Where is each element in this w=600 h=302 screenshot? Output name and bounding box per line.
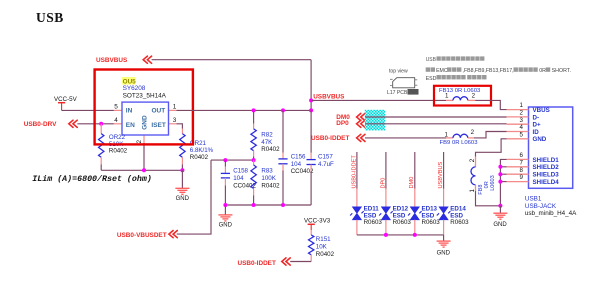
- wire mid rail divider: [211, 159, 254, 161]
- wire USBVBUS top horizontal: [152, 59, 312, 61]
- node rail-R83: [252, 203, 256, 207]
- wire shield bus vertical: [500, 159, 506, 205]
- svg-text:,FB8,FB9,FB13,FB17,: ,FB8,FB9,FB13,FB17,: [463, 68, 514, 74]
- svg-text:ISET: ISET: [151, 122, 165, 129]
- chevron USB0-IDDET mid: [357, 134, 365, 141]
- chevron USB0-DRV: [69, 120, 77, 127]
- connector pin 6 SHIELD1: [507, 158, 529, 160]
- node C157 top: [309, 108, 313, 112]
- svg-text:ID: ID: [533, 129, 540, 136]
- resistor R151: [310, 230, 312, 235]
- svg-text:L0603: L0603: [490, 175, 496, 191]
- resistor R83: [253, 160, 255, 165]
- svg-text:DM0: DM0: [409, 177, 415, 189]
- capacitor C158: [224, 160, 226, 166]
- node C156 top: [281, 108, 285, 112]
- svg-text:R0603: R0603: [364, 219, 383, 226]
- svg-text:1: 1: [173, 104, 177, 111]
- wire shield stub: [500, 166, 506, 168]
- svg-text:SHIELD2: SHIELD2: [533, 164, 560, 171]
- svg-text:D-: D-: [533, 114, 540, 121]
- wire shield stub: [500, 173, 506, 175]
- highlight box around FB13: [434, 86, 491, 106]
- svg-text:SHIELD1: SHIELD1: [533, 157, 560, 164]
- ground GND under shield bus: [499, 206, 501, 213]
- svg-text:USB0-IDDET: USB0-IDDET: [238, 260, 276, 267]
- IC U5 pin 3 stub: [169, 123, 177, 125]
- svg-text:GND: GND: [437, 251, 451, 257]
- svg-text:FB13 0R L0603: FB13 0R L0603: [439, 88, 481, 94]
- svg-text:R0603: R0603: [393, 219, 412, 226]
- ESD diode ED14: [439, 207, 448, 220]
- wire USBVBUS to FB13: [311, 99, 446, 101]
- wire GND pin2 vertical: [143, 143, 145, 170]
- svg-text:USB: USB: [426, 57, 437, 63]
- svg-text:2: 2: [471, 129, 475, 136]
- node R82 top: [252, 108, 256, 112]
- capacitor C156: [282, 110, 284, 152]
- resistor OR21: [181, 129, 183, 134]
- ground GND under ESD rail: [443, 235, 445, 241]
- connector pin 1 VBUS: [507, 109, 529, 111]
- node shield-FB8 junction: [498, 204, 502, 208]
- wire DM0 to D-: [365, 116, 507, 118]
- chevron DM0: [357, 113, 365, 120]
- wire USB0-IDDET stub to ED11: [356, 152, 358, 189]
- svg-text:USB0-VBUSDET: USB0-VBUSDET: [117, 232, 167, 239]
- svg-text:0R: 0R: [539, 68, 546, 74]
- svg-text:IN: IN: [126, 108, 133, 115]
- IC U5 pin 5 stub: [114, 109, 122, 111]
- svg-text:4: 4: [519, 124, 523, 131]
- node ESD rail 1: [384, 233, 388, 237]
- node rail-C158: [223, 203, 227, 207]
- svg-text:C156: C156: [291, 154, 306, 161]
- svg-text:5: 5: [519, 131, 523, 138]
- svg-text:SHIELD3: SHIELD3: [533, 172, 560, 179]
- svg-text:EN: EN: [126, 122, 135, 129]
- IC OU5 reference label: [122, 77, 136, 85]
- svg-text:GND: GND: [219, 223, 233, 229]
- svg-text:2: 2: [469, 158, 476, 162]
- connector USB1 body: [529, 107, 573, 188]
- svg-text:R0402: R0402: [316, 251, 335, 258]
- ESD diode ED13: [410, 207, 419, 220]
- wire FB8 to shield net: [476, 191, 501, 206]
- wire USB0-DRV to EN pin: [77, 123, 114, 125]
- node shield junction: [498, 165, 502, 169]
- annotation note line2: [426, 67, 430, 71]
- svg-text:100K: 100K: [261, 175, 276, 182]
- svg-text:OUT: OUT: [151, 108, 165, 115]
- node C158 top: [223, 158, 227, 162]
- svg-text:USB0-IDDET: USB0-IDDET: [351, 155, 357, 189]
- svg-text:8: 8: [519, 167, 523, 174]
- svg-text:DP0: DP0: [380, 178, 386, 189]
- svg-text:R0402: R0402: [261, 146, 280, 153]
- node rail-C156: [281, 203, 285, 207]
- ferrite bead FB13: [446, 99, 453, 101]
- chevron USB0-IDDET bottom: [282, 258, 290, 265]
- wire OUT net horizontal: [177, 109, 312, 111]
- svg-text:9: 9: [519, 174, 523, 181]
- wire caps bottom rail: [225, 204, 311, 206]
- svg-text:USB: USB: [36, 10, 64, 25]
- capacitor C157: [310, 110, 312, 152]
- svg-text:6: 6: [519, 152, 523, 159]
- wire FB9 to ID pin: [474, 132, 507, 138]
- power symbol VCC-5V: [58, 102, 65, 104]
- svg-text:47K: 47K: [261, 139, 273, 146]
- svg-text:104: 104: [233, 175, 244, 182]
- svg-text:ILim (A)=6800/Rset (ohm): ILim (A)=6800/Rset (ohm): [32, 174, 152, 184]
- svg-text:5: 5: [114, 104, 118, 111]
- IC U5 pin 4 stub: [114, 123, 122, 125]
- svg-text:L17 PCB: L17 PCB: [387, 90, 408, 96]
- chevron DP0: [357, 120, 365, 127]
- svg-text:D+: D+: [533, 122, 541, 129]
- svg-text:usb_minib_H4_4A: usb_minib_H4_4A: [525, 210, 577, 217]
- svg-text:top view: top view: [389, 68, 408, 74]
- wire ISET to OR21: [177, 124, 183, 129]
- svg-text:R82: R82: [261, 132, 273, 139]
- chevron USB0-VBUSDET: [169, 231, 177, 238]
- IC U5 pin 1 stub: [169, 109, 177, 111]
- svg-text:R83: R83: [261, 168, 273, 175]
- svg-text:3: 3: [173, 117, 177, 124]
- node OR21 junction: [180, 168, 184, 172]
- power symbol VCC-3V3: [308, 223, 315, 225]
- svg-text:C158: C158: [233, 168, 248, 175]
- resistor R82: [253, 110, 255, 123]
- wire bottom rail OR22-OR21: [101, 169, 182, 171]
- wire FB13 to VBUS pin: [475, 100, 506, 109]
- ground GND under C158 rail: [224, 205, 226, 215]
- highlight box around OU5: [95, 70, 193, 145]
- svg-text:DP0: DP0: [336, 120, 349, 127]
- connector pin 7 SHIELD2: [507, 166, 529, 168]
- svg-text:GND: GND: [493, 222, 507, 228]
- svg-text:10K: 10K: [316, 243, 328, 250]
- wire DP0 stub to ED12: [385, 152, 387, 189]
- wire VCC-5V to IN pin: [62, 109, 114, 111]
- IC U5 pin 2 stub: [143, 135, 145, 143]
- wire ESD bottom rail: [357, 234, 444, 236]
- wire USB0-IDDET bottom: [290, 261, 311, 263]
- ESD diode ED11: [352, 207, 361, 220]
- svg-text:USBVBUS: USBVBUS: [96, 57, 128, 64]
- svg-text:R0603: R0603: [422, 219, 441, 226]
- svg-text:1: 1: [445, 131, 449, 138]
- ferrite bead FB9: [446, 137, 453, 139]
- connector pin 3 D+: [507, 123, 529, 125]
- node R82-R83 junction: [252, 158, 256, 162]
- node shield junction: [498, 172, 502, 176]
- svg-text:GND: GND: [533, 136, 547, 143]
- svg-text:FB9 0R L0603: FB9 0R L0603: [440, 140, 479, 146]
- connector pin 8 SHIELD3: [507, 173, 529, 175]
- ground GND under OR21: [181, 170, 183, 188]
- svg-text:3: 3: [519, 117, 523, 124]
- connector pin 9 SHIELD4: [507, 181, 529, 183]
- svg-text:EMC: EMC: [436, 68, 448, 74]
- svg-text:CC0402: CC0402: [291, 168, 314, 175]
- wire DM0 stub to ED13: [414, 152, 416, 189]
- node shield junction: [498, 180, 502, 184]
- svg-text:1: 1: [519, 102, 523, 109]
- resistor OR22: [100, 124, 102, 134]
- svg-text:USB0-DRV: USB0-DRV: [24, 121, 57, 128]
- connector pin 4 ID: [507, 131, 529, 133]
- svg-text:USB0-IDDET: USB0-IDDET: [311, 135, 349, 142]
- svg-text:VCC-5V: VCC-5V: [54, 96, 78, 103]
- svg-text:R151: R151: [316, 236, 331, 243]
- svg-text:R0402: R0402: [190, 154, 209, 161]
- svg-text:2: 2: [519, 110, 523, 117]
- svg-text:GND: GND: [176, 196, 190, 202]
- svg-text:4: 4: [114, 117, 118, 124]
- svg-text:USBVBUS: USBVBUS: [438, 161, 444, 188]
- svg-text:R0603: R0603: [450, 219, 469, 226]
- svg-text:USB1: USB1: [525, 196, 542, 203]
- svg-text:VBUS: VBUS: [533, 107, 550, 114]
- svg-text:SY6208: SY6208: [123, 85, 146, 92]
- connector pin 2 D-: [507, 116, 529, 118]
- svg-text:7: 7: [519, 159, 523, 166]
- node ESD rail 2: [413, 233, 417, 237]
- svg-text:VCC-3V3: VCC-3V3: [304, 217, 331, 224]
- wire USBVBUS riser x=311: [310, 60, 312, 111]
- wire USB0-VBUSDET riser: [177, 160, 211, 234]
- node pin2 junction: [142, 168, 146, 172]
- ferrite bead FB8: [475, 157, 477, 167]
- svg-text:C157: C157: [318, 154, 333, 161]
- svg-text:SHORT.: SHORT.: [552, 68, 571, 74]
- wire GND pin to FB8: [476, 139, 507, 157]
- wire DP0 to D+: [365, 123, 507, 125]
- wire shield stub: [500, 181, 506, 183]
- svg-text:USBVBUS: USBVBUS: [313, 93, 345, 100]
- svg-text:R0402: R0402: [261, 182, 280, 189]
- node USBVBUS branch: [309, 98, 313, 102]
- connector pin 5 GND: [507, 138, 529, 140]
- svg-text:SOT23_5H14A: SOT23_5H14A: [123, 92, 167, 99]
- svg-text:4.7uF: 4.7uF: [318, 161, 334, 168]
- node EN junction: [99, 122, 103, 126]
- wire USB0-IDDET to FB9: [365, 137, 446, 139]
- svg-text:2: 2: [136, 140, 143, 144]
- IC OU5 SY6208 body: [122, 102, 169, 135]
- svg-text:SHIELD4: SHIELD4: [533, 179, 560, 186]
- chevron USBVBUS: [143, 56, 151, 63]
- svg-text:R0402: R0402: [109, 148, 128, 155]
- ESD diode ED12: [381, 207, 390, 220]
- svg-text:ESD: ESD: [426, 76, 437, 82]
- wire USBVBUS stub to ED14: [443, 152, 445, 189]
- svg-text:104: 104: [291, 161, 302, 168]
- svg-text:GND: GND: [141, 115, 148, 130]
